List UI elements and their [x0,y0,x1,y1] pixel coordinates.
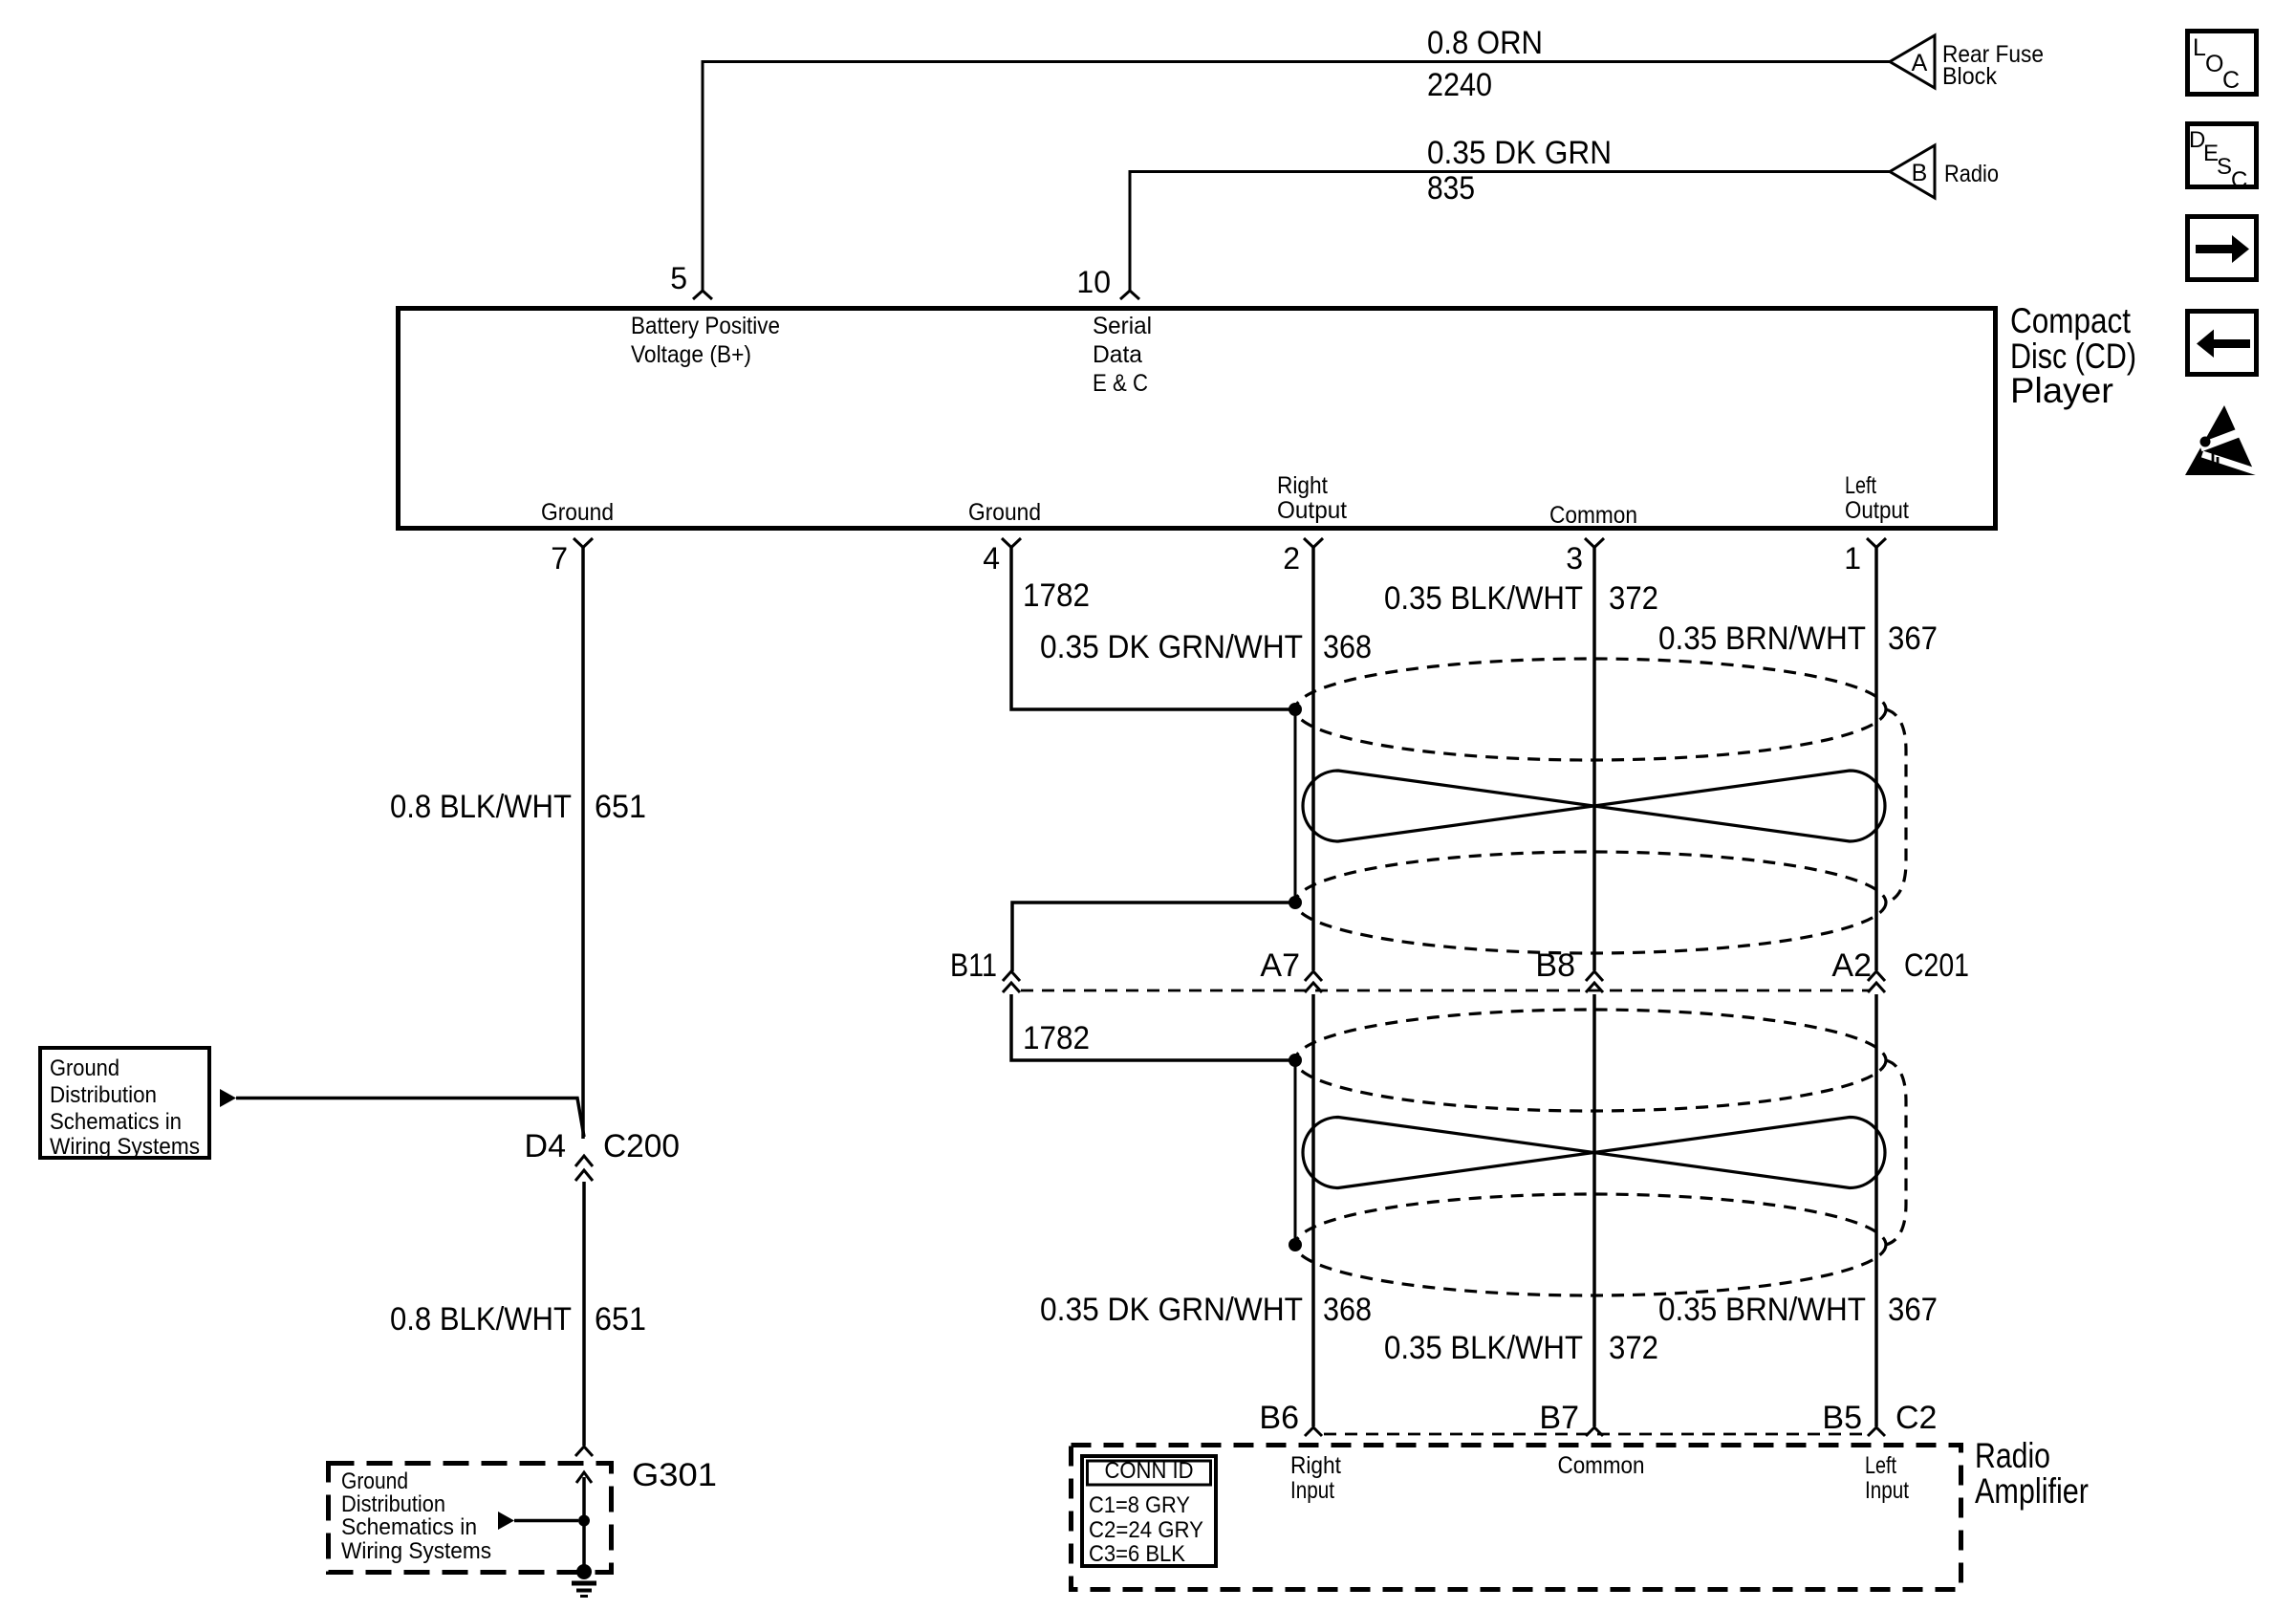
off-page connector B to Radio [1890,145,1935,198]
svg-text:Wiring Systems: Wiring Systems [50,1134,200,1160]
svg-text:B7: B7 [1539,1400,1579,1436]
svg-text:Voltage (B+): Voltage (B+) [631,341,751,368]
shield ellipse bottom (group 1) [1295,852,1886,953]
svg-text:2240: 2240 [1427,67,1492,103]
svg-text:10: 10 [1076,265,1111,299]
svg-text:C2=24 GRY: C2=24 GRY [1089,1517,1203,1543]
svg-text:1782: 1782 [1023,1020,1090,1056]
svg-text:Output: Output [1845,497,1909,524]
svg-text:S: S [2217,154,2232,180]
svg-text:Wiring Systems: Wiring Systems [341,1538,491,1564]
svg-text:0.35 DK GRN/WHT: 0.35 DK GRN/WHT [1040,629,1303,665]
connector C2 dashed line [1324,1433,1867,1436]
svg-text:Battery Positive: Battery Positive [631,313,780,339]
svg-text:0.35 BLK/WHT: 0.35 BLK/WHT [1384,580,1583,617]
twisted pair symbol (group 1) [1303,771,1885,841]
junction node in G301 [578,1515,590,1527]
svg-text:Input: Input [1865,1477,1909,1504]
wire 0.35 DK GRN circuit 835 (pin 10 to Radio) [1130,172,1890,292]
in-line connector C200 terminal [575,1156,593,1166]
svg-text:B8: B8 [1535,947,1575,984]
reference box Ground Distribution Schematics in Wiring Systems (dashed, G301) [329,1464,612,1573]
reference box LOC [2188,32,2257,95]
wire A2 to B5 0.35 BRN/WHT 367 (lower) [1874,994,1878,1426]
svg-text:A: A [1912,50,1928,76]
svg-text:5: 5 [670,261,687,295]
pin B7 terminal at Radio Amplifier [1586,1427,1603,1436]
svg-text:0.35 DK GRN/WHT: 0.35 DK GRN/WHT [1040,1292,1303,1328]
shield drain junction node (group 1 upper) [1289,703,1302,716]
connector C201 terminal A2 [1868,971,1885,981]
svg-text:G301: G301 [632,1457,717,1493]
svg-text:B11: B11 [950,947,997,984]
svg-text:D4: D4 [525,1128,566,1164]
svg-text:C200: C200 [603,1128,680,1164]
navigation box arrow right [2188,217,2257,280]
svg-text:2: 2 [1283,541,1300,576]
ground stud and earth symbol G301 [576,1564,592,1579]
svg-text:Serial: Serial [1093,313,1152,339]
pin B6 terminal at Radio Amplifier [1305,1427,1322,1436]
svg-text:A7: A7 [1260,947,1300,984]
wire B8 to B7 0.35 BLK/WHT 372 (lower) [1592,994,1596,1426]
svg-text:368: 368 [1323,629,1372,665]
svg-text:C2: C2 [1895,1400,1937,1436]
svg-text:Disc (CD): Disc (CD) [2010,337,2136,376]
shield drain junction node (group 2 lower) [1289,1238,1302,1251]
shield right arc (group 2) [1886,1060,1906,1245]
shield drain junction node (group 2 upper) [1289,1054,1302,1067]
svg-text:Distribution: Distribution [341,1491,445,1517]
svg-text:Player: Player [2010,371,2113,410]
svg-text:B: B [1912,160,1928,186]
svg-text:Radio: Radio [1975,1436,2050,1475]
pin 5 terminal at CD player [693,291,712,299]
svg-text:Ground: Ground [541,499,614,526]
svg-text:L: L [2193,34,2206,61]
svg-text:3: 3 [1566,541,1583,576]
ESD susceptibility symbol [2185,405,2258,475]
pin 10 terminal at CD player [1120,291,1139,299]
svg-text:368: 368 [1323,1292,1372,1328]
svg-text:835: 835 [1427,170,1475,207]
svg-text:0.35 BRN/WHT: 0.35 BRN/WHT [1658,620,1866,657]
svg-text:0.35 BLK/WHT: 0.35 BLK/WHT [1384,1330,1583,1366]
shield drain link (group 1) [1294,709,1297,903]
wire pin 3 Common 0.35 BLK/WHT 372 (upper) [1592,546,1596,970]
reference box DESC [2188,124,2257,187]
svg-text:Radio: Radio [1944,161,1999,187]
reference box Ground Distribution Schematics in Wiring Systems (solid) [40,1048,209,1158]
svg-text:651: 651 [595,789,646,825]
svg-text:0.8 BLK/WHT: 0.8 BLK/WHT [390,1301,572,1338]
pin 7 terminal at CD player [574,538,593,548]
component box: Radio Amplifier (dashed) [1072,1446,1961,1590]
wire shield drain to B11 (1782) [1012,903,1295,971]
connector C201 terminal B11 [1003,971,1020,981]
svg-text:7: 7 [551,541,568,576]
svg-text:Common: Common [1558,1452,1645,1479]
svg-text:Left: Left [1865,1452,1896,1479]
connector C201 terminal A7 [1305,971,1322,981]
svg-text:C201: C201 [1904,947,1969,984]
svg-text:Ground: Ground [968,499,1041,526]
svg-text:Ground: Ground [341,1469,408,1494]
svg-text:Compact: Compact [2010,301,2132,340]
svg-text:0.8 ORN: 0.8 ORN [1427,25,1543,61]
svg-text:651: 651 [595,1301,646,1338]
wire pin 2 Right Output 0.35 DK GRN/WHT 368 (upper) [1311,546,1315,970]
wire into G301 with chevron [576,1472,592,1483]
svg-text:372: 372 [1609,1330,1658,1366]
wire B11 to shield drain (1782 lower) [1011,994,1289,1060]
shield drain link (group 2) [1294,1060,1297,1245]
svg-text:E & C: E & C [1093,370,1148,397]
svg-text:CONN ID: CONN ID [1105,1458,1194,1484]
navigation box arrow left [2188,312,2257,375]
svg-text:Left: Left [1845,472,1876,499]
pin 2 terminal at CD player [1304,538,1323,548]
svg-text:1: 1 [1844,541,1861,576]
pin 1 terminal at CD player [1867,538,1886,548]
connector C201 terminal B8 [1586,971,1603,981]
svg-text:Ground: Ground [50,1055,119,1081]
shield right arc (group 1) [1886,709,1906,903]
svg-text:Distribution: Distribution [50,1082,157,1108]
wire pin 4 Ground to shield drain (1782) [1011,546,1289,709]
component box: Compact Disc (CD) Player [399,309,1996,529]
svg-text:1782: 1782 [1023,577,1090,614]
twisted pair symbol (group 2) [1303,1118,1885,1188]
svg-text:Schematics in: Schematics in [50,1109,182,1135]
pin 4 terminal at CD player [1002,538,1021,548]
CONN ID table [1082,1456,1216,1567]
arrowhead from reference box [220,1089,236,1107]
svg-text:0.35 BRN/WHT: 0.35 BRN/WHT [1658,1292,1866,1328]
svg-text:Input: Input [1290,1477,1334,1504]
wire 0.8 BLK/WHT 651 (pin 7 down to C200) [581,546,585,1139]
wire A7 to B6 0.35 DK GRN/WHT 368 (lower) [1311,994,1315,1426]
ground G301 terminal [575,1447,593,1456]
connector C201 dashed line [1021,990,1871,992]
svg-text:Data: Data [1093,341,1142,368]
wire to ground distribution arrow [514,1519,578,1523]
svg-text:O: O [2205,51,2223,77]
svg-text:Output: Output [1277,497,1347,524]
svg-text:C3=6 BLK: C3=6 BLK [1089,1541,1185,1567]
svg-text:367: 367 [1888,1292,1938,1328]
svg-text:0.35 DK GRN: 0.35 DK GRN [1427,135,1612,171]
svg-text:0.8 BLK/WHT: 0.8 BLK/WHT [390,789,572,825]
shield ellipse top (group 2) [1295,1010,1886,1111]
wire 0.8 BLK/WHT 651 (C200 to G301) [582,1182,586,1446]
svg-text:367: 367 [1888,620,1938,657]
svg-text:B6: B6 [1259,1400,1299,1436]
svg-text:A2: A2 [1831,947,1872,984]
pin 3 terminal at CD player [1585,538,1604,548]
wire 0.8 BLK/WHT 651 branch from reference [236,1099,584,1138]
shield drain junction node (group 1 lower) [1289,896,1302,909]
svg-text:B5: B5 [1822,1400,1862,1436]
svg-text:Right: Right [1277,472,1328,499]
svg-text:Block: Block [1942,63,1997,90]
arrowhead to ground distribution [498,1512,514,1530]
svg-text:4: 4 [983,541,1000,576]
svg-text:C: C [2222,67,2240,94]
wire pin 1 Left Output 0.35 BRN/WHT 367 (upper) [1874,546,1878,970]
off-page connector A to Rear Fuse Block [1890,35,1935,88]
svg-text:Common: Common [1549,502,1637,529]
svg-text:372: 372 [1609,580,1658,617]
wire 0.8 ORN circuit 2240 (pin 5 to Rear Fuse Block) [703,62,1890,292]
svg-text:Amplifier: Amplifier [1975,1471,2089,1511]
shield ellipse top (group 1) [1295,659,1886,760]
pin B5 terminal at Radio Amplifier [1868,1427,1885,1436]
svg-text:Right: Right [1290,1452,1341,1479]
svg-text:Schematics in: Schematics in [341,1514,477,1540]
shield ellipse bottom (group 2) [1295,1194,1886,1295]
svg-text:C1=8 GRY: C1=8 GRY [1089,1492,1190,1518]
svg-text:C: C [2231,167,2247,193]
